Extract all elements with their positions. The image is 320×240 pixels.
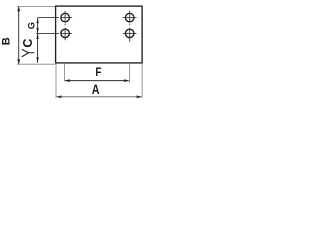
arrow B top xyxy=(17,6,20,11)
hole top-right xyxy=(125,13,134,22)
centerline horizontal top row left xyxy=(38,17,73,19)
svg-text:B: B xyxy=(1,37,13,45)
dimension line F xyxy=(65,80,128,82)
arrow A left xyxy=(56,95,61,98)
arrow YC top xyxy=(36,34,38,39)
centerline horizontal bottom row right xyxy=(123,32,137,34)
dimension line A xyxy=(57,96,141,98)
dimension line B xyxy=(18,7,20,63)
hole top-left xyxy=(61,13,70,22)
extension below plate: right hole centerline xyxy=(129,64,131,83)
extension below plate: left hole centerline xyxy=(63,64,65,82)
extension below plate: plate left edge xyxy=(55,64,57,98)
arrow YC bottom xyxy=(36,57,38,62)
arrow F left xyxy=(64,79,69,82)
bottom extension line for B xyxy=(17,63,55,65)
arrow B bottom xyxy=(17,59,20,64)
centerline horizontal bottom row left xyxy=(36,32,72,34)
svg-text:G: G xyxy=(26,22,36,29)
arrow G bottom xyxy=(36,28,38,33)
hole bottom-left xyxy=(61,29,70,38)
extension below plate: plate right edge xyxy=(141,64,143,99)
centerline horizontal top row right xyxy=(123,17,137,19)
top extension line for B xyxy=(17,5,55,7)
svg-text:F: F xyxy=(95,65,101,79)
arrow F right xyxy=(124,79,129,82)
plate outline xyxy=(56,6,143,63)
svg-text:C: C xyxy=(21,39,35,48)
svg-text:A: A xyxy=(92,81,100,97)
centerline vertical left holes xyxy=(64,11,66,40)
arrow A right xyxy=(137,95,142,98)
hole bottom-right xyxy=(125,29,134,38)
label Y (of YC, drawn strokes) xyxy=(22,50,34,57)
dimension line G and YC xyxy=(37,18,39,63)
centerline vertical right holes xyxy=(129,11,131,42)
arrow G top xyxy=(36,18,38,23)
